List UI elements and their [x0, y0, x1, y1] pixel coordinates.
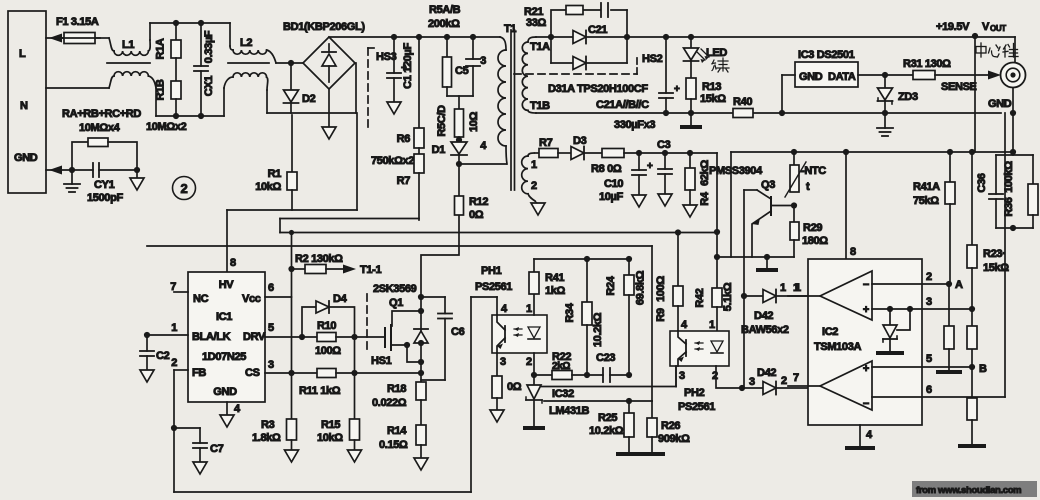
- node Q3 ground: [764, 254, 770, 260]
- ground bar LED: [680, 113, 702, 129]
- node R13 bottom: [688, 110, 694, 116]
- fuse F1 3.15A: [56, 16, 100, 44]
- diode D42 lower: [742, 367, 823, 395]
- inductor L1: [107, 38, 156, 88]
- svg-text:6: 6: [926, 384, 932, 396]
- svg-text:ZD3: ZD3: [898, 91, 918, 103]
- svg-text:R11 1kΩ: R11 1kΩ: [299, 385, 341, 397]
- resistor R1B: [155, 79, 182, 116]
- svg-text:10kΩ: 10kΩ: [255, 181, 281, 193]
- resistor R8 0Ω: [591, 149, 717, 176]
- svg-text:−: −: [863, 279, 869, 291]
- svg-text:10MΩx4: 10MΩx4: [79, 122, 121, 134]
- capacitor C7: [174, 428, 224, 474]
- svg-text:2: 2: [171, 357, 177, 369]
- node CY1 right: [134, 167, 140, 173]
- wire R1 startup: [291, 115, 293, 172]
- capacitor C5: [455, 37, 480, 96]
- label green (Chinese): [712, 58, 729, 72]
- label PH1 PS2561: [475, 265, 512, 293]
- node R41A top: [947, 149, 953, 155]
- node R9 bus: [675, 229, 681, 235]
- wire R25 top: [544, 400, 652, 402]
- svg-text:C21A//B//C: C21A//B//C: [596, 99, 649, 111]
- svg-text:PH1: PH1: [481, 265, 502, 277]
- svg-text:750kΩx2: 750kΩx2: [371, 155, 414, 167]
- node bottom-left 1: [173, 113, 179, 119]
- heatsink HS1 dashed: [367, 294, 392, 367]
- svg-text:1: 1: [709, 319, 715, 331]
- wire R7 to startup bus: [280, 219, 419, 233]
- svg-text:Vcc: Vcc: [242, 293, 261, 305]
- svg-text:1.8kΩ: 1.8kΩ: [252, 432, 281, 444]
- svg-text:2: 2: [926, 271, 932, 283]
- label +19.5V: [936, 21, 970, 33]
- heatsink HS2 dashed: [514, 53, 663, 74]
- resistor R9 100Ω: [655, 233, 683, 332]
- svg-text:R1A: R1A: [155, 38, 167, 59]
- label pin8: [850, 246, 856, 258]
- svg-text:R13: R13: [702, 81, 721, 93]
- IC2 pin4 ground: [845, 425, 875, 450]
- svg-text:R25: R25: [598, 412, 617, 424]
- wire drain-C6: [421, 296, 445, 298]
- svg-text:R6: R6: [397, 133, 411, 145]
- node IC3 gnd: [779, 110, 785, 116]
- wire pin6: [872, 113, 1005, 397]
- svg-text:D4: D4: [333, 293, 348, 305]
- node NTC top: [791, 149, 797, 155]
- svg-text:R12: R12: [469, 196, 488, 208]
- svg-text:+: +: [674, 84, 680, 95]
- LED indicator: [684, 37, 728, 78]
- label R5A/B 200kΩ: [428, 4, 461, 30]
- node NTC-R29: [791, 202, 797, 208]
- svg-text:10kΩ: 10kΩ: [317, 432, 343, 444]
- svg-text:R41: R41: [545, 272, 564, 284]
- resistor R2 130kΩ: [292, 253, 382, 276]
- svg-text:R34: R34: [564, 302, 576, 322]
- node pin8: [843, 149, 849, 155]
- svg-text:T1-1: T1-1: [360, 264, 381, 276]
- svg-text:BLA/LK: BLA/LK: [192, 331, 231, 343]
- wire pin1 to opamp: [788, 282, 820, 296]
- svg-text:D3: D3: [573, 135, 587, 147]
- svg-text:D1: D1: [432, 144, 446, 156]
- resistor R7 aux: [535, 137, 571, 158]
- wire LM431 ref: [541, 367, 676, 387]
- node C23-R24: [626, 372, 632, 378]
- label PH2 PS2561: [678, 387, 715, 413]
- resistor R12 0Ω: [421, 164, 488, 295]
- svg-text:D31A TPS20H100CF: D31A TPS20H100CF: [548, 83, 648, 95]
- svg-text:CS: CS: [245, 367, 260, 379]
- resistor R4 62kΩ: [683, 153, 711, 217]
- node DATA: [882, 72, 888, 78]
- node secondary: [548, 34, 554, 40]
- resistor R25 10.2kΩ: [589, 401, 642, 456]
- svg-text:2kΩ: 2kΩ: [552, 361, 570, 372]
- wire fuse to L1: [95, 37, 109, 39]
- node C3: [662, 150, 668, 156]
- label RA+RB+RC+RD: [62, 108, 141, 134]
- svg-text:R4: R4: [699, 191, 711, 206]
- svg-text:5: 5: [268, 322, 274, 334]
- svg-text:1D07N25: 1D07N25: [202, 351, 246, 363]
- transistor Q3: [744, 190, 794, 257]
- node R15: [351, 370, 357, 376]
- svg-text:A: A: [955, 279, 963, 291]
- node zener left: [887, 306, 893, 312]
- wire PH1 pin4 feedback: [471, 296, 497, 298]
- svg-text:-NTC: -NTC: [801, 165, 826, 177]
- T1 primary winding (pins 3-4): [480, 37, 507, 164]
- svg-text:C21: C21: [588, 24, 607, 36]
- svg-text:100kΩ: 100kΩ: [1003, 161, 1015, 193]
- diode D42 upper: [744, 282, 822, 303]
- svg-text:LED: LED: [706, 47, 727, 59]
- svg-text:1: 1: [171, 322, 177, 334]
- node D2 top: [288, 60, 294, 66]
- node D1 bottom: [456, 161, 462, 167]
- pin 6 Vcc wire: [265, 233, 292, 374]
- IC3 ground loop: [782, 75, 795, 113]
- resistor R41A 75kΩ: [913, 152, 955, 283]
- svg-text:0.15Ω: 0.15Ω: [379, 439, 408, 451]
- svg-text:1: 1: [531, 159, 537, 171]
- svg-text:2: 2: [181, 181, 188, 196]
- svg-text:R24: R24: [605, 275, 617, 295]
- node rectifier out: [624, 34, 630, 40]
- optocoupler PH1: [492, 294, 547, 376]
- node R34 top: [584, 256, 590, 262]
- MOSFET Q1: [385, 311, 421, 362]
- svg-text:3: 3: [268, 359, 274, 371]
- svg-text:10MΩx2: 10MΩx2: [146, 121, 187, 133]
- resistor R14 0.15Ω: [379, 425, 428, 470]
- node R6 top: [416, 34, 422, 40]
- svg-text:R2 130kΩ: R2 130kΩ: [295, 253, 343, 265]
- svg-text:HS1: HS1: [371, 355, 392, 367]
- svg-text:BAW56x2: BAW56x2: [741, 324, 789, 336]
- svg-text:15kΩ: 15kΩ: [700, 93, 726, 105]
- svg-text:0Ω: 0Ω: [469, 209, 484, 221]
- svg-text:C10: C10: [604, 178, 623, 190]
- bottom rail of filter: [156, 88, 224, 116]
- svg-text:10µF: 10µF: [599, 191, 624, 203]
- op-amp U2B: [820, 361, 872, 410]
- svg-text:R41A: R41A: [913, 181, 940, 193]
- node source lead: [404, 342, 410, 348]
- svg-text:T1A: T1A: [530, 41, 550, 53]
- node R4: [687, 150, 693, 156]
- node A: [946, 279, 963, 291]
- svg-text:C1 120µF: C1 120µF: [402, 43, 414, 89]
- svg-text:0.022Ω: 0.022Ω: [372, 397, 407, 409]
- wire Q3 collector drop: [743, 190, 745, 388]
- capacitor C2: [140, 335, 170, 382]
- transformer T1 label: [504, 23, 516, 35]
- node aux-R42: [714, 254, 720, 260]
- svg-text:IC3 DS2501: IC3 DS2501: [798, 49, 855, 61]
- svg-text:69.8kΩ: 69.8kΩ: [635, 270, 647, 305]
- capacitor CY1: [72, 163, 137, 204]
- bus BLA: [147, 246, 652, 401]
- svg-text:PS2561: PS2561: [678, 401, 715, 413]
- resistor divider B lower: [958, 367, 986, 448]
- svg-text:FB: FB: [192, 367, 206, 379]
- wire opamp out pin2: [872, 271, 949, 284]
- svg-text:180Ω: 180Ω: [802, 235, 828, 247]
- wire pin3: [872, 296, 972, 309]
- node drain top: [418, 294, 424, 300]
- svg-text:GND: GND: [213, 386, 237, 398]
- top HV rail: [329, 36, 500, 38]
- node connector gnd: [1010, 110, 1016, 116]
- svg-text:R40: R40: [733, 96, 752, 108]
- svg-text:T1B: T1B: [530, 100, 550, 112]
- resistor R34 10.2kΩ: [564, 259, 604, 375]
- svg-text:5: 5: [926, 353, 932, 365]
- svg-text:GND: GND: [988, 98, 1012, 110]
- node bus-R2: [289, 230, 294, 235]
- wire R5-C5 junction: [447, 96, 473, 109]
- T1 core: [511, 30, 515, 190]
- node R5 top: [444, 34, 450, 40]
- svg-text:R9: R9: [655, 308, 667, 322]
- floating ground CY1: [130, 170, 144, 190]
- wire DATA: [858, 74, 913, 76]
- node CS sense: [418, 370, 424, 376]
- svg-text:C6: C6: [451, 326, 465, 338]
- resistor divider mid: [967, 309, 977, 367]
- wire N: [46, 87, 109, 89]
- svg-text:R7: R7: [539, 137, 553, 149]
- svg-text:2: 2: [526, 356, 532, 368]
- capacitor C23: [596, 352, 629, 382]
- capacitor C21A//B//C 330µFx3: [596, 37, 680, 131]
- label 10MΩx2: [146, 121, 187, 133]
- svg-text:OUT: OUT: [990, 24, 1006, 33]
- svg-text:10.2kΩ: 10.2kΩ: [589, 425, 624, 437]
- node top-left 2: [198, 20, 204, 26]
- svg-text:C3: C3: [657, 139, 671, 151]
- earth ground mains: [64, 170, 80, 192]
- svg-text:33Ω: 33Ω: [526, 17, 547, 29]
- svg-text:R5C/D: R5C/D: [436, 105, 448, 137]
- node CY1 left: [69, 167, 75, 173]
- capacitor C36 / resistor R36 100kΩ parallel: [976, 152, 1038, 231]
- node D1 top: [456, 137, 462, 143]
- wire PH2 pin2: [716, 366, 742, 388]
- svg-text:7: 7: [793, 372, 799, 384]
- svg-text:0Ω: 0Ω: [507, 381, 522, 393]
- inductor L2: [224, 23, 276, 116]
- node pin3-R23: [969, 306, 975, 312]
- resistor R3 1.8kΩ: [252, 373, 299, 462]
- svg-text:100Ω: 100Ω: [655, 276, 667, 302]
- svg-text:1: 1: [780, 282, 786, 294]
- label GND output: [988, 98, 1012, 110]
- earth ground ZD3: [877, 113, 893, 136]
- body diode Q1: [414, 297, 428, 362]
- capacitor C21: [588, 3, 608, 36]
- node C1: [391, 34, 397, 40]
- wire gnd to block: [1012, 113, 1014, 152]
- bridge output ground (hot): [322, 89, 336, 139]
- secondary top rail: [536, 36, 1015, 38]
- svg-text:R18: R18: [387, 383, 406, 395]
- svg-text:CX1: CX1: [203, 76, 215, 97]
- svg-text:C36: C36: [976, 173, 988, 192]
- svg-text:L1: L1: [122, 39, 134, 51]
- svg-text:10Ω: 10Ω: [468, 111, 480, 132]
- capacitor C10 10µF: [599, 153, 653, 207]
- svg-text:3: 3: [480, 55, 486, 67]
- svg-text:10.2kΩ: 10.2kΩ: [592, 312, 604, 347]
- node C21A bottom: [663, 110, 669, 116]
- resistor divider A: [936, 284, 962, 374]
- node C10: [636, 150, 642, 156]
- resistor R18 0.022Ω: [372, 362, 426, 425]
- wire Vcc rail right: [731, 151, 1014, 153]
- zener reference IC2: [876, 309, 910, 355]
- IC3 DS2501: [795, 49, 858, 87]
- node D4 left: [299, 334, 305, 340]
- wire top rail to filter: [150, 23, 230, 40]
- node B: [969, 363, 987, 375]
- node source: [418, 359, 424, 365]
- svg-text:5.1kΩ: 5.1kΩ: [722, 282, 734, 311]
- resistor R26 909kΩ: [639, 401, 690, 456]
- pin 1 wire: [147, 322, 188, 335]
- wire GND with arrow: [46, 166, 72, 175]
- resistor R24 69.8kΩ: [605, 259, 647, 375]
- svg-text:C7: C7: [210, 443, 224, 455]
- svg-text:R5A/B: R5A/B: [429, 4, 461, 16]
- resistor R1 10kΩ: [255, 168, 297, 210]
- node LED top: [688, 34, 694, 40]
- capacitor C3: [657, 139, 672, 206]
- capacitor C1 120µF: [387, 37, 414, 114]
- svg-text:2: 2: [712, 370, 718, 382]
- svg-text:R29: R29: [803, 222, 822, 234]
- node R22-C23: [584, 372, 590, 378]
- svg-text:R26: R26: [661, 420, 680, 432]
- svg-text:−: −: [863, 398, 869, 410]
- bus Vcc (startup): [280, 232, 717, 234]
- diode D3: [571, 135, 602, 160]
- svg-text:R7: R7: [397, 175, 411, 187]
- resistor R10 100Ω: [315, 320, 385, 357]
- resistor R7: [397, 148, 424, 220]
- node C36 block top: [1010, 149, 1016, 155]
- node top-left 1: [173, 20, 179, 26]
- aux rail descent: [716, 153, 718, 288]
- connector J1 (mains inlet L/N/GND): [8, 11, 46, 193]
- svg-text:75kΩ: 75kΩ: [913, 195, 939, 207]
- wire PH2 pin3: [675, 366, 677, 387]
- node zener right: [907, 306, 913, 312]
- svg-text:8: 8: [850, 246, 856, 258]
- svg-text:R31 130Ω: R31 130Ω: [903, 58, 951, 70]
- svg-text:DRV: DRV: [243, 331, 266, 343]
- pin 2 FB wire: [171, 357, 188, 492]
- pin 3 CS wire: [265, 359, 317, 373]
- IC2 box TSM103A: [808, 259, 922, 425]
- wire to T1 pin4: [459, 163, 506, 165]
- svg-text:F1 3.15A: F1 3.15A: [56, 16, 99, 28]
- svg-text:BD1(KBP206GL): BD1(KBP206GL): [283, 21, 365, 33]
- symbol circled 2: [173, 177, 196, 200]
- op-amp U2A: [820, 271, 872, 320]
- svg-text:2SK3569: 2SK3569: [373, 283, 417, 295]
- svg-text:from www.shoudian.com: from www.shoudian.com: [916, 485, 1021, 496]
- svg-text:3: 3: [500, 356, 506, 368]
- svg-text:330µFx3: 330µFx3: [614, 119, 655, 131]
- wire pin7: [788, 372, 820, 386]
- resistor R11 1kΩ: [299, 369, 419, 398]
- resistor R15 10kΩ: [317, 337, 362, 462]
- diode D1: [432, 137, 467, 164]
- svg-text:+: +: [863, 304, 869, 316]
- label PMSS3904 Q3: [709, 165, 775, 191]
- svg-text:D42: D42: [757, 367, 776, 379]
- resistor R22 2kΩ: [534, 351, 603, 380]
- resistor R23 15kΩ: [967, 152, 1009, 309]
- svg-text:R8 0Ω: R8 0Ω: [591, 163, 622, 175]
- node bottom-left 2: [198, 113, 204, 119]
- resistor R40: [733, 96, 753, 118]
- wire R41 top: [534, 258, 587, 260]
- svg-text:0.33µF: 0.33µF: [203, 30, 215, 63]
- label D42 BAW56x2: [741, 310, 789, 336]
- svg-text:R42: R42: [694, 288, 706, 307]
- wire emitter line: [716, 256, 794, 258]
- svg-text:C5: C5: [455, 65, 469, 77]
- svg-text:R23·: R23·: [983, 248, 1005, 260]
- svg-text:R15: R15: [321, 419, 340, 431]
- svg-text:1: 1: [793, 282, 799, 294]
- resistor R21 33Ω: [524, 6, 583, 30]
- thermistor NTC: [785, 152, 826, 197]
- svg-text:D42: D42: [754, 310, 773, 322]
- svg-text:V: V: [982, 21, 990, 33]
- node C5 top: [470, 34, 476, 40]
- node R24 top: [626, 256, 632, 262]
- node aux-bus1: [714, 229, 720, 235]
- svg-text:DATA: DATA: [828, 71, 856, 83]
- svg-text:8: 8: [230, 257, 236, 269]
- resistor R42 5.1kΩ: [694, 282, 734, 331]
- svg-text:L: L: [19, 48, 26, 60]
- capacitor CX1: [194, 23, 215, 116]
- secondary bottom rail: [536, 112, 1001, 114]
- svg-text:6: 6: [268, 282, 274, 294]
- rectifier D31A lower diode: [551, 37, 627, 70]
- resistor R41 1kΩ: [529, 259, 566, 297]
- shunt reg IC32 LM431B: [523, 375, 589, 430]
- wire connector gnd: [1012, 88, 1014, 113]
- resistor 0Ω PH1: [490, 376, 522, 422]
- node FB-C7: [171, 425, 177, 431]
- pin 8 label: [230, 257, 236, 269]
- T1 auxiliary winding (pins 1-2): [522, 153, 537, 201]
- node D42 lower: [739, 385, 745, 391]
- node C2: [144, 332, 150, 338]
- svg-text:3: 3: [679, 370, 685, 382]
- resistor R5A/B: [443, 37, 452, 96]
